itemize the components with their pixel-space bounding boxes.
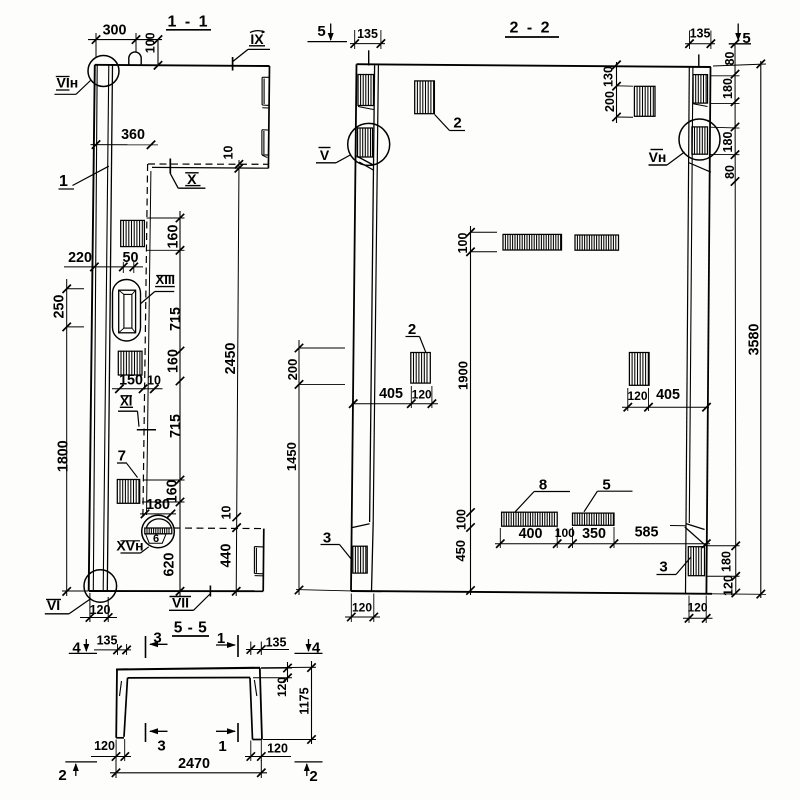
svg-text:130: 130	[602, 66, 616, 87]
svg-text:135: 135	[97, 634, 118, 648]
svg-text:7: 7	[118, 448, 126, 465]
hidden line: flange inner face vertical	[143, 164, 148, 516]
svg-text:120: 120	[275, 677, 289, 697]
svg-text:405: 405	[379, 386, 403, 402]
embed plate R2 (hatched)	[118, 351, 142, 375]
node label IX with leader	[250, 31, 265, 33]
svg-text:VIн: VIн	[57, 75, 79, 91]
notch B bottom flange	[254, 546, 263, 548]
dimension 3580 overall right	[760, 61, 762, 598]
dimension 2470 overall width	[110, 772, 267, 774]
svg-text:440: 440	[219, 544, 235, 568]
dimension chain 160/715/160/715/160/620	[179, 211, 181, 596]
svg-text:100: 100	[144, 32, 158, 53]
embed strip 5 (hatched)	[573, 513, 615, 525]
node label VIH	[56, 76, 70, 78]
embed XIII frame bevels	[119, 290, 124, 294]
dimension chain 100/1900/100/450 centre	[470, 226, 472, 595]
embed plate right rib top (hatched)	[693, 75, 707, 104]
channel slab top edge	[116, 668, 260, 670]
svg-text:400: 400	[519, 526, 543, 542]
svg-text:180: 180	[721, 78, 735, 99]
svg-text:10: 10	[147, 374, 161, 388]
svg-text:1: 1	[59, 173, 68, 190]
svg-text:1 - 1: 1 - 1	[167, 14, 209, 31]
left leg outer edge	[115, 670, 118, 738]
wall outer second line	[93, 65, 97, 591]
dimension chain 80/180/180/80 right	[734, 44, 737, 594]
bottom edge extension left	[296, 590, 351, 591]
node label XI with leader	[121, 395, 133, 397]
embed XIII stadium outer	[113, 280, 141, 342]
svg-text:120: 120	[90, 603, 111, 617]
svg-text:620: 620	[162, 553, 178, 577]
embed strip top row right (hatched)	[575, 235, 619, 250]
embed plate left rib top (hatched)	[358, 75, 374, 106]
dimension 120 slab thickness	[287, 662, 289, 682]
dimension 405 / 120 mid-left	[352, 403, 439, 405]
hidden line: flange inner face horizontal	[148, 163, 269, 165]
embed plate 2 top-left (hatched)	[415, 81, 435, 114]
wire: panel top edge 1-1	[95, 65, 270, 66]
svg-text:5 - 5: 5 - 5	[174, 620, 208, 637]
dimension 180 embed6	[140, 513, 176, 515]
svg-text:585: 585	[635, 525, 659, 541]
label VH with leader	[651, 149, 664, 151]
embed 6 label flag	[146, 534, 166, 543]
left leg inner edge	[124, 678, 128, 737]
svg-text:2 - 2: 2 - 2	[509, 20, 551, 37]
left leg taper mark	[120, 681, 122, 696]
detail circle V	[348, 123, 390, 165]
svg-text:250: 250	[52, 295, 68, 319]
bottom flange hidden top edge	[174, 527, 264, 530]
detail circle VI bottom	[84, 570, 117, 603]
right rib outer edge	[706, 67, 710, 594]
dimension chain 200/1450 left	[298, 340, 300, 595]
wall outer face line	[89, 65, 95, 591]
svg-text:5: 5	[317, 23, 325, 40]
dimension 120 bottom-right rib	[683, 617, 713, 619]
embed 6 bar loop arc	[146, 519, 171, 528]
detail circle XVH embed6	[142, 515, 175, 548]
left rib pocket slope	[353, 524, 370, 528]
right rib diagonal below circle VH	[688, 163, 711, 173]
dimension 250 / 1800 chain	[66, 279, 68, 596]
embed plate 2 mid-left (hatched)	[411, 353, 431, 384]
panel bottom edge 2-2	[351, 591, 712, 594]
embed plate 2 mid-right (hatched)	[629, 353, 649, 386]
label V with leader	[319, 147, 331, 149]
svg-text:180: 180	[146, 497, 170, 513]
node label XVH with leader	[121, 540, 141, 542]
left rib inner edge upper b	[373, 65, 378, 522]
svg-text:450: 450	[453, 540, 468, 562]
svg-text:VII: VII	[172, 595, 189, 611]
svg-text:360: 360	[121, 127, 145, 143]
svg-text:135: 135	[266, 636, 287, 650]
embed plate 3 right rib bottom (hatched)	[688, 547, 704, 576]
svg-text:Vн: Vн	[649, 149, 667, 165]
lifting loop 1-1	[129, 52, 141, 65]
svg-text:2470: 2470	[178, 756, 210, 772]
left rib outer edge	[351, 64, 357, 591]
left rib inner edge upper a	[370, 65, 375, 522]
svg-text:1: 1	[218, 738, 226, 755]
svg-text:VI: VI	[47, 597, 60, 613]
dimension 300 top	[88, 39, 162, 41]
left rib diagonal below circle V	[357, 156, 374, 165]
pocket line under left top embed	[358, 107, 374, 110]
svg-text:405: 405	[656, 387, 680, 403]
dimension 1175 height	[311, 661, 313, 744]
dimension 120 bottom-left rib	[345, 616, 380, 618]
svg-text:100: 100	[456, 233, 470, 254]
svg-text:2: 2	[58, 767, 66, 784]
right rib lifting loop tick	[698, 54, 700, 67]
svg-text:10: 10	[222, 146, 236, 160]
svg-text:200: 200	[603, 91, 617, 112]
notch T1 top flange	[262, 76, 269, 78]
svg-text:2: 2	[309, 768, 317, 785]
dimension 135 top-right	[685, 43, 715, 45]
svg-text:120: 120	[267, 742, 288, 756]
svg-text:6: 6	[153, 533, 159, 545]
svg-text:10: 10	[220, 506, 234, 520]
node label X with leader	[185, 172, 198, 174]
panel bottom edge 1-1	[89, 590, 264, 592]
embed plate R1 (hatched)	[121, 220, 145, 246]
detail circle VH	[679, 119, 720, 160]
embed strip top row left (hatched)	[503, 234, 562, 250]
svg-text:V: V	[320, 147, 330, 163]
right leg taper mark	[254, 680, 256, 696]
svg-text:1175: 1175	[298, 687, 312, 714]
svg-text:XIII: XIII	[156, 272, 176, 287]
svg-text:135: 135	[357, 27, 378, 41]
dimension 120 / 405 mid-right	[622, 406, 709, 408]
section arrow 5 top-right	[737, 24, 739, 41]
bottom flange right edge	[262, 529, 265, 592]
embed XIII inner frame	[124, 294, 132, 328]
svg-text:50: 50	[123, 250, 139, 266]
svg-text:1800: 1800	[56, 440, 72, 472]
detail circle VIH top	[88, 56, 119, 87]
svg-text:IX: IX	[250, 31, 264, 47]
dimension 360	[91, 144, 159, 146]
left rib inner edge lower	[372, 522, 374, 591]
notch T2 top flange	[262, 129, 269, 131]
dimension 135 left 5-5	[94, 649, 131, 651]
svg-text:80: 80	[723, 52, 737, 66]
svg-text:120: 120	[352, 601, 372, 615]
bottom edge extension right	[712, 593, 766, 596]
stub line left of right rib pocket	[670, 525, 685, 527]
dimension 150 / 10 horizontal	[112, 388, 163, 390]
svg-text:X: X	[187, 171, 197, 187]
svg-text:5: 5	[742, 30, 750, 47]
wall inner line b	[107, 65, 112, 591]
edge 10mm offset vertical	[147, 171, 151, 515]
top flange right edge	[268, 66, 269, 168]
svg-text:3: 3	[659, 559, 667, 576]
svg-text:2: 2	[453, 115, 461, 132]
svg-text:220: 220	[68, 250, 92, 266]
node label VII with leader	[170, 596, 192, 598]
dimension 120 bottom 1-1	[80, 617, 117, 619]
embed strip 8 (hatched)	[502, 512, 558, 526]
right leg bottom cap	[253, 739, 263, 741]
svg-text:120: 120	[94, 739, 115, 753]
dimension 135 right 5-5	[246, 649, 289, 651]
dimension 400/100/350/585	[495, 543, 710, 545]
edge 10mm offset horizontal	[152, 166, 269, 169]
svg-text:2450: 2450	[223, 343, 239, 375]
embed plate 2 top-right (hatched)	[634, 86, 655, 116]
svg-text:1900: 1900	[456, 361, 471, 390]
svg-text:300: 300	[103, 23, 127, 39]
svg-text:3580: 3580	[747, 324, 763, 356]
pocket line under right top embed	[693, 104, 707, 107]
embed plate left rib mid (hatched)	[358, 128, 373, 157]
panel top edge 2-2	[357, 64, 711, 67]
svg-text:3: 3	[157, 738, 165, 755]
svg-text:350: 350	[582, 526, 606, 542]
embed plate 3 left rib bottom (hatched)	[353, 546, 367, 573]
svg-text:715: 715	[168, 307, 184, 331]
node label VI with leader	[46, 599, 61, 601]
svg-text:100: 100	[455, 509, 469, 530]
svg-text:2: 2	[408, 321, 416, 338]
dimension 120 bottom-right 5-5	[245, 756, 291, 758]
svg-text:200: 200	[285, 359, 300, 381]
node label XIII with leader	[156, 275, 174, 277]
right leg inner edge	[250, 678, 253, 740]
left leg bottom cap	[116, 737, 124, 739]
svg-text:135: 135	[690, 27, 711, 41]
svg-text:160: 160	[166, 349, 182, 373]
left rib lifting loop tick	[368, 50, 370, 65]
svg-text:XVн: XVн	[116, 538, 143, 554]
right leg outer edge	[260, 668, 262, 740]
dimension 135 top-left	[350, 43, 385, 45]
svg-text:80: 80	[723, 165, 737, 179]
channel slab bottom edge	[128, 677, 251, 679]
right rib inner edge a	[686, 67, 690, 594]
svg-text:160: 160	[166, 225, 182, 249]
dimension 130 / 200 top	[616, 62, 618, 123]
embed 6 plate (hatched)	[145, 528, 172, 534]
svg-text:180: 180	[720, 551, 734, 572]
dimension 220 and 50	[64, 266, 143, 268]
svg-text:120: 120	[687, 601, 707, 615]
right rib pocket slope	[686, 524, 705, 530]
svg-text:180: 180	[721, 132, 735, 153]
svg-text:120: 120	[412, 388, 432, 402]
right rib inner edge b	[689, 67, 693, 523]
wall inner line a	[103, 65, 109, 591]
dimension 100 top vertical	[157, 40, 159, 66]
svg-text:120: 120	[722, 575, 736, 596]
svg-text:XI: XI	[120, 393, 132, 408]
svg-text:120: 120	[627, 389, 647, 403]
svg-text:150: 150	[119, 373, 143, 389]
embed plate right rib mid (hatched)	[692, 127, 708, 154]
embed plate R3 (hatched)	[117, 480, 139, 504]
dimension 120 bottom-left 5-5	[91, 756, 131, 758]
dimension 2450 line with 10 10 440	[236, 160, 239, 596]
svg-text:1450: 1450	[284, 442, 299, 471]
embed XIII mid frame	[119, 290, 136, 333]
svg-text:715: 715	[168, 414, 184, 438]
